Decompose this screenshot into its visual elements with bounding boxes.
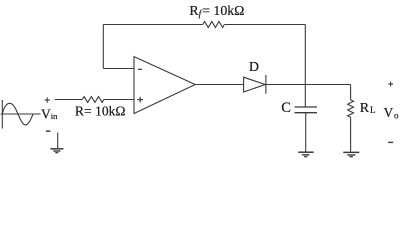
wire R to op-amp + input [104,99,134,101]
source - polarity [46,130,51,132]
wire Vin+ to R [55,99,83,101]
wire feedback left vertical [102,25,104,69]
op-amp - input label [138,68,142,70]
ground (source) [50,133,63,153]
wire diode to RL corner [266,84,350,86]
wire feedback top right [224,24,305,26]
svg-text:V: V [384,105,394,120]
svg-text:V: V [41,106,51,121]
label Rf = 10k [189,3,244,19]
label Vin [41,106,58,121]
diode D cathode bar [265,75,267,94]
op-amp + input label [137,97,143,103]
wire feedback top left [103,24,203,26]
wire op-amp output to diode [195,84,244,86]
capacitor C bottom plate [295,112,318,114]
output + polarity [388,82,393,87]
resistor Rf (feedback zigzag) [203,22,225,28]
output - polarity [388,141,393,143]
svg-text:L: L [370,105,376,115]
wire RL top stem [350,85,352,100]
diode D triangle [244,77,266,92]
AC source Vin (sine icon horizontal axis) [1,113,41,115]
svg-text:R= 10kΩ: R= 10kΩ [75,103,126,118]
svg-text:D: D [249,60,259,75]
svg-text:C: C [281,100,291,116]
wire op-amp - input [103,68,134,70]
svg-text:= 10kΩ: = 10kΩ [202,3,244,18]
resistor R1 (R = 10k, zigzag) [82,97,103,103]
op-amp U1 triangle [134,57,195,114]
wire capacitor bottom stem [305,113,307,152]
wire RL bottom stem [350,117,352,152]
AC source Vin (sine wave) [2,103,33,125]
AC source Vin (sine icon vertical axis) [1,100,3,129]
capacitor C top plate [295,106,318,108]
wire feedback right vertical down to capacitor [304,25,306,108]
resistor RL (vertical zigzag) [348,100,354,117]
svg-text:o: o [394,110,399,120]
label Vo [384,105,399,121]
source + polarity [45,97,50,102]
svg-text:R: R [360,101,370,116]
ground (RL) [343,152,359,156]
label RL [360,101,376,116]
svg-text:in: in [51,111,58,121]
ground (capacitor) [298,152,314,156]
